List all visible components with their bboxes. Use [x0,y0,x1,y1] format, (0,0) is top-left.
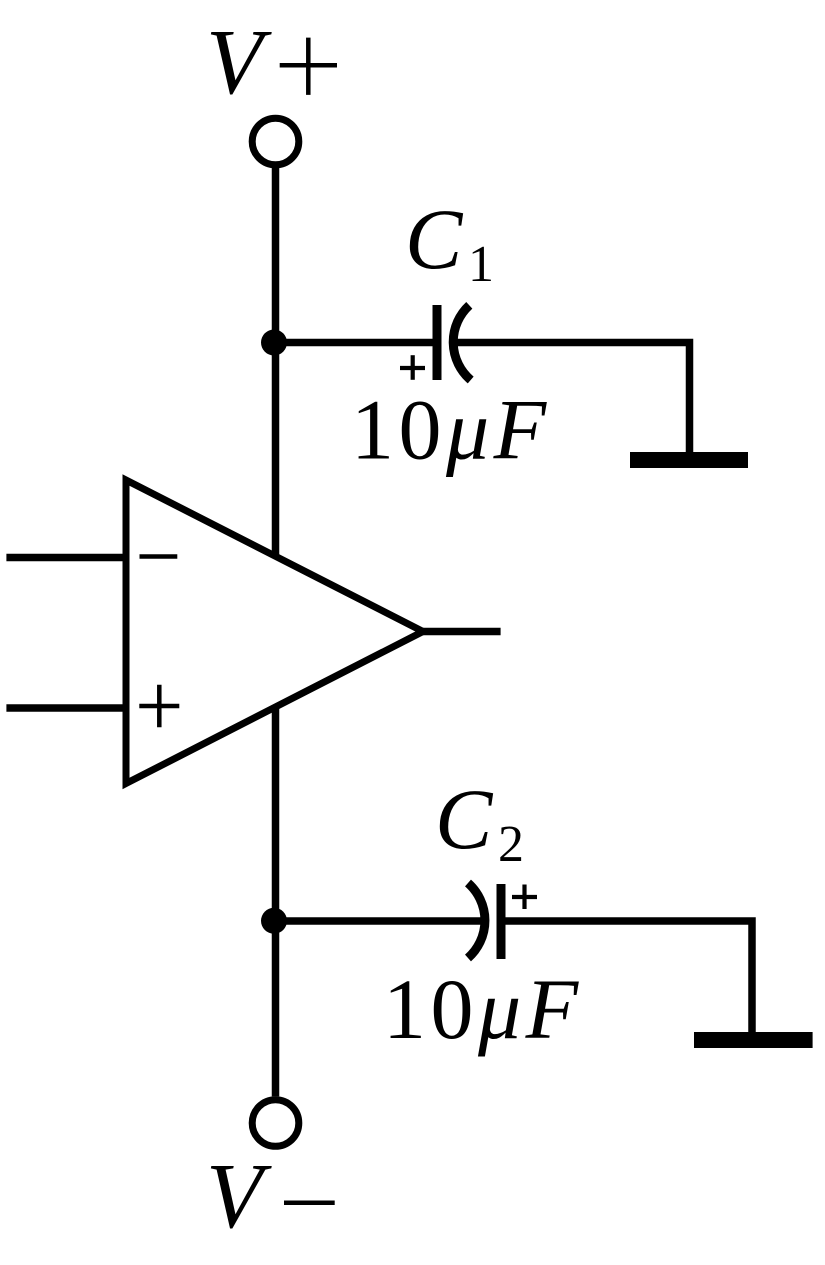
node V+ label [206,11,337,114]
svg-text:10μF: 10μF [383,961,583,1057]
capacitor C2 [468,883,537,959]
ground G1 [630,452,748,468]
wire C2 to ground G2 [505,921,752,1032]
svg-text:2: 2 [498,816,524,873]
junction node B [261,908,287,934]
wire C1 to ground G1 [456,343,690,453]
wire junction B to C2 [274,917,481,925]
wire op-amp bottom to V- [272,708,280,1096]
wire junction A to C1 [274,339,433,347]
svg-text:1: 1 [468,236,494,293]
value 10uF of C2 [383,961,583,1057]
label C2 [435,771,524,873]
svg-text:C: C [405,191,464,287]
junction node A [261,330,287,356]
svg-text:C: C [435,771,494,867]
ground G2 [694,1032,813,1048]
wire V+ to op-amp top [272,168,280,557]
op-amp U1 body [126,480,423,784]
terminal V- [252,1100,299,1147]
value 10uF of C1 [351,382,551,478]
wire non-inverting input [6,704,126,712]
svg-text:V: V [206,1145,272,1248]
svg-text:V: V [206,11,272,114]
op-amp U1 inverting input marker [140,554,178,559]
label C1 [405,191,494,293]
wire output [423,628,501,636]
wire inverting input [6,554,126,562]
op-amp U1 non-inverting input marker [139,685,179,728]
svg-text:10μF: 10μF [351,382,551,478]
terminal V+ [252,118,299,165]
node V- label [206,1145,335,1248]
capacitor C1 [400,305,471,380]
